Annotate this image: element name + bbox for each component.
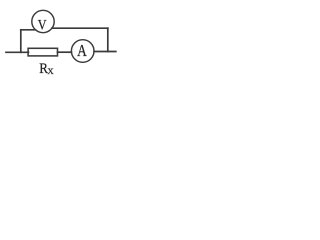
- resistor RX box: [28, 48, 57, 56]
- voltmeter U1 circle: [32, 10, 54, 32]
- svg-text:V: V: [38, 16, 47, 33]
- wire: resistor to ammeter: [58, 51, 72, 53]
- svg-text:A: A: [77, 41, 87, 60]
- wire: ammeter to right terminal stub: [94, 51, 116, 53]
- ammeter U2 circle: [71, 40, 94, 63]
- wire: right vertical branch riser: [107, 28, 109, 51]
- svg-text:X: X: [47, 66, 53, 76]
- wire: top-left segment to voltmeter: [21, 29, 36, 31]
- wire: left vertical branch riser: [20, 30, 22, 53]
- wire: top-right segment from voltmeter to right riser: [52, 27, 108, 29]
- wire: left terminal stub and main line to resistor: [6, 51, 29, 53]
